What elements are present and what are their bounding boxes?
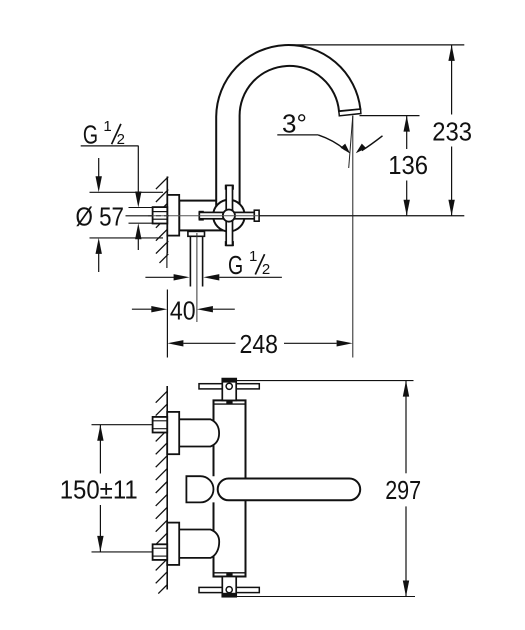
G1/2 nut extension lines	[129, 207, 153, 209]
valve body (horizontal cylinder)	[179, 201, 230, 231]
body (plan, vertical)	[214, 400, 246, 576]
3° right arc arrow	[362, 136, 383, 151]
svg-text:3°: 3°	[282, 108, 307, 138]
150 dimension line	[99, 425, 101, 474]
lower escutcheon (plan)	[167, 523, 179, 565]
drop tube (bath outlet)	[189, 236, 191, 286]
svg-text:1: 1	[249, 248, 257, 265]
svg-text:150±11: 150±11	[60, 474, 138, 504]
tilted 3-degree axis line	[349, 116, 353, 169]
bottom cap line	[214, 572, 246, 574]
spout outlet band	[339, 109, 361, 116]
centerline through valve	[148, 215, 259, 217]
bottom handle bar	[199, 587, 259, 592]
297 dimension line	[405, 381, 407, 474]
G1/2 up arrow	[137, 238, 139, 250]
dimension line 248	[167, 340, 183, 346]
cross handle vertical arm	[226, 185, 234, 189]
3° left arc arrow	[318, 135, 345, 150]
cross handle horizontal arm	[199, 212, 203, 220]
svg-text:233: 233	[432, 116, 472, 146]
G1/2 label underline	[81, 145, 139, 147]
top handle hub	[222, 379, 236, 401]
svg-text:1: 1	[103, 118, 111, 135]
union hex nut (top view)	[153, 207, 168, 223]
water stream projection line	[352, 116, 354, 358]
svg-text:297: 297	[385, 475, 421, 505]
spout tube (gooseneck outline)	[216, 45, 360, 209]
svg-text:40: 40	[170, 295, 196, 325]
valve handle circle	[213, 200, 245, 232]
wall line thin continuation	[166, 254, 168, 269]
150 extension lines	[92, 424, 153, 426]
Ø57 leader line	[126, 215, 153, 217]
upper escutcheon (plan)	[167, 412, 179, 454]
outlet extension line (136)	[360, 115, 420, 117]
3° underline	[277, 134, 318, 136]
Ø57 bottom arrow	[98, 252, 100, 272]
lower inlet cone	[179, 530, 219, 558]
wall hatching (plan)	[156, 391, 168, 593]
svg-text:248: 248	[240, 329, 279, 359]
wall hatching (top view)	[156, 177, 168, 263]
G1/2 lower dimension arrows	[145, 276, 175, 278]
svg-text:G: G	[228, 250, 243, 280]
hex nut flat lines	[153, 211, 168, 213]
upper inlet cone	[179, 419, 219, 446]
bottom outlet socket	[188, 231, 205, 236]
Ø57 top arrow	[98, 158, 100, 178]
wall line (top view)	[166, 177, 168, 254]
lower hex nut (plan)	[153, 544, 168, 560]
label G 1/2 (lower)	[228, 248, 270, 280]
wall extension line (40/248)	[166, 290, 168, 358]
Ø57 extension lines	[90, 191, 164, 193]
top cap line	[214, 403, 246, 405]
G1/2 down arrow	[137, 146, 139, 193]
svg-text:2: 2	[262, 261, 270, 278]
upper hex nut (plan)	[153, 417, 168, 433]
wall escutcheon (top view)	[167, 195, 179, 236]
handle end cap	[254, 210, 259, 221]
svg-text:136: 136	[388, 150, 428, 180]
bottom handle hub	[222, 577, 236, 597]
svg-text:G: G	[83, 120, 98, 150]
spout (plan, pill)	[218, 479, 361, 501]
spout diverter block (plan)	[186, 476, 213, 502]
nut dashed centerline	[148, 215, 171, 217]
spout top extension line	[288, 44, 465, 46]
wall line (plan)	[166, 386, 168, 590]
dimension line 136	[406, 116, 408, 149]
label G 1/2 (upper)	[83, 118, 125, 150]
svg-text:2: 2	[117, 131, 125, 148]
top handle bar	[199, 384, 259, 389]
297 top extension line	[236, 380, 413, 382]
dimension line 233	[451, 45, 453, 115]
handle inner circle	[223, 210, 235, 222]
dimension 40 arrows	[132, 308, 153, 310]
297 bottom extension line	[236, 596, 415, 598]
svg-text:Ø 57: Ø 57	[76, 202, 125, 232]
tube centerline extension	[196, 233, 198, 322]
centerline / extension line to dimensions	[259, 215, 464, 217]
cap black marks	[226, 400, 232, 404]
